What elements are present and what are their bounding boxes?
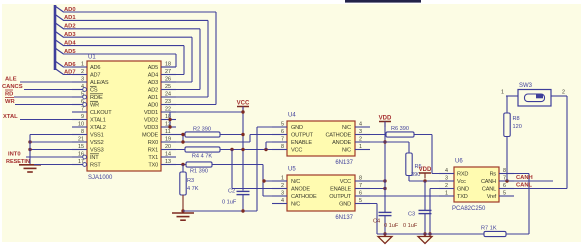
svg-text:4: 4 [359, 121, 362, 127]
wire U4 GND drop [256, 127, 258, 211]
wire AD0 to U1 pin [161, 104, 216, 106]
U4 right pin 1 N/C [355, 149, 370, 151]
svg-text:8: 8 [281, 144, 284, 150]
svg-text:CATHODE: CATHODE [291, 194, 317, 200]
svg-text:VDD2: VDD2 [144, 118, 158, 124]
wire VSS1 to ground [30, 134, 87, 136]
wire R4 right to U4 VCC [220, 149, 287, 151]
U1 left pin 3 ALE/AS [72, 81, 87, 83]
switch SW3 body [518, 90, 551, 107]
svg-text:1: 1 [501, 90, 504, 96]
svg-text:VDD1: VDD1 [144, 110, 158, 116]
svg-text:MODE: MODE [142, 133, 158, 139]
wire AD2 bus entry [55, 23, 64, 29]
U1 right pin 26 AD3 [161, 81, 176, 83]
wire AD5 to U1 pin [161, 66, 176, 68]
svg-text:AD0: AD0 [148, 103, 158, 109]
svg-text:RX0: RX0 [148, 140, 158, 146]
svg-text:CATHODE: CATHODE [325, 133, 351, 139]
wire CANL [499, 188, 567, 190]
wire U5 ANODE branch [231, 150, 233, 189]
wire AD1 vertical drop [207, 20, 209, 97]
junction VSS2 [28, 140, 31, 143]
U5 right pin 6 OUTPUT [355, 195, 370, 197]
wire U6 GND down [430, 188, 454, 190]
junction U4 enable tie [264, 148, 267, 151]
svg-text:C4: C4 [373, 219, 380, 225]
junction C3 ground [423, 232, 426, 235]
svg-text:CANH: CANH [516, 175, 533, 181]
svg-text:AD0: AD0 [64, 7, 76, 13]
U1 left pin 2 AD7 [72, 74, 87, 76]
U5 right pin 5 GND [355, 203, 370, 205]
svg-text:RXD: RXD [457, 172, 468, 178]
junction R2/VCC riser [241, 133, 244, 136]
svg-text:INT: INT [90, 155, 99, 161]
U1 left pin 16 INT [72, 156, 83, 158]
wire R2 right to VCC [220, 134, 243, 136]
resistor R6 390 [386, 132, 414, 137]
U1 left pin 8 VSS1 [72, 134, 87, 136]
resistor R7 1K [484, 231, 506, 236]
U1 right pin 23 AD0 [161, 104, 176, 106]
svg-text:VCC: VCC [291, 148, 302, 154]
junction VCC riser / VDD1 [241, 110, 244, 113]
svg-text:R7 1K: R7 1K [481, 226, 497, 232]
svg-text:AD1: AD1 [148, 95, 158, 101]
junction U5 pin1 area [262, 179, 265, 182]
U6 right pin 6 CANL [499, 188, 514, 190]
U6 right pin 8 Rs [499, 173, 514, 175]
SW3 pin 1 [506, 95, 518, 97]
wire AD3 bus entry [55, 31, 64, 37]
svg-text:GND: GND [291, 125, 303, 131]
wire INT0 [26, 156, 83, 158]
wire RX0 jog up [249, 135, 251, 143]
junction VDD2 [168, 118, 171, 121]
U1 right pin 13 TX0 [161, 164, 176, 166]
resistor R3 4.7K [180, 172, 186, 195]
U5 left pin 4 N/C [272, 203, 287, 205]
svg-text:5: 5 [503, 190, 506, 196]
wire AD6 bus entry [55, 61, 64, 67]
svg-text:AD6: AD6 [64, 62, 76, 68]
U6 right pin 7 CANH [499, 180, 514, 182]
wire R1 right [212, 164, 263, 166]
U1 right pin 18 AD5 [161, 66, 176, 68]
U4 right pin 4 N/C [355, 126, 370, 128]
wire to U4 OUTPUT [250, 134, 287, 136]
wire WR [15, 104, 83, 106]
U5 left pin 3 CATHODE [272, 195, 287, 197]
junction C2 ground [241, 209, 244, 212]
svg-text:U4: U4 [288, 113, 296, 119]
wire VDD1 to VCC [161, 111, 243, 113]
junction U5 VCC/VDD [383, 179, 386, 182]
U6 left pin 1 TXD [439, 195, 454, 197]
wire C3 riser [424, 181, 426, 210]
svg-text:N/C: N/C [291, 179, 300, 185]
svg-text:OUTPUT: OUTPUT [329, 194, 352, 200]
ground (VSS) [19, 165, 41, 172]
svg-text:C2: C2 [228, 189, 235, 195]
svg-text:SJA1000: SJA1000 [88, 175, 113, 181]
svg-text:R8: R8 [513, 116, 520, 122]
wire VCC riser [242, 107, 244, 191]
wire R2 left jog down [182, 135, 184, 143]
U1 left pin 21 VSS2 [72, 141, 87, 143]
svg-text:VSS3: VSS3 [90, 148, 104, 154]
svg-text:TX0: TX0 [148, 163, 158, 169]
svg-text:CANL: CANL [482, 187, 496, 193]
U4 right pin 2 ANODE [355, 141, 370, 143]
svg-text:4 7K: 4 7K [187, 186, 199, 192]
resistor R4 4.7K [185, 147, 220, 152]
capacitor C3 0.1uF [419, 209, 432, 211]
wire CANCS [24, 89, 83, 91]
wire U5 pin1 stub extension [264, 180, 287, 182]
svg-text:7: 7 [81, 106, 84, 112]
wire VDD tie vertical [169, 112, 171, 127]
wire AD4 to U1 pin [161, 74, 184, 76]
ground (C4) [378, 237, 392, 244]
svg-text:GND: GND [339, 202, 351, 208]
U1 right pin 20 RX1 [161, 149, 176, 151]
cropped title underline at top [345, 0, 421, 3]
U6 left pin 2 GND [439, 188, 454, 190]
wire AD7 bus entry [55, 69, 64, 75]
wire R8 bottom to CANH [506, 137, 508, 182]
junction U5 anode branch [230, 148, 233, 151]
svg-text:1: 1 [445, 190, 448, 196]
power VDD symbol (U6) [419, 172, 431, 174]
svg-text:VDD3: VDD3 [144, 125, 158, 131]
svg-text:3: 3 [445, 175, 448, 181]
wire ground feeder [29, 135, 31, 165]
wire R8 top [506, 96, 508, 113]
U4 left pin 6 OUTPUT [272, 134, 287, 136]
svg-text:U5: U5 [288, 167, 296, 173]
svg-text:11: 11 [165, 129, 171, 135]
svg-text:RD: RD [5, 92, 13, 98]
ground (R3/C2) [172, 213, 194, 220]
svg-text:0 1uF: 0 1uF [384, 223, 399, 229]
SW3 pin 2 [551, 95, 567, 97]
wire U5 OUTPUT to U6 TXD [355, 195, 454, 197]
wire CANH [499, 180, 553, 182]
wire AD0 bus entry [55, 6, 64, 12]
bus AD[0..7] vertical [54, 5, 57, 70]
wire U4 CATHODE [355, 134, 387, 136]
svg-text:GND: GND [457, 187, 469, 193]
wire R3 top [182, 165, 184, 173]
svg-text:AD5: AD5 [64, 49, 76, 55]
wire R5 bottom [408, 176, 410, 182]
U1 right pin 27 AD4 [161, 74, 176, 76]
U1 left pin 5 RD/E [72, 96, 83, 98]
junction R2 left [181, 133, 184, 136]
svg-text:120: 120 [513, 124, 522, 130]
junction U6 GND/ground row [428, 232, 431, 235]
wire AD3 vertical drop [191, 37, 193, 82]
U1 left pin 9 XTAL1 [72, 119, 87, 121]
wire R3 bottom [182, 195, 184, 213]
U1 right pin 24 AD1 [161, 96, 176, 98]
svg-text:RST: RST [90, 163, 101, 169]
svg-text:AD4: AD4 [148, 73, 158, 79]
resistor R2 390 [185, 132, 220, 137]
ground stub C3 [424, 234, 426, 237]
wire down to U5 cathode [262, 165, 264, 197]
junction R8/CANH [505, 179, 508, 182]
wire AD1 to U1 pin [161, 96, 208, 98]
svg-text:XTAL: XTAL [3, 114, 18, 120]
wire MODE/R2 row [176, 134, 185, 136]
svg-text:VSS2: VSS2 [90, 140, 104, 146]
wire U5 ENABLE to VDD [355, 188, 385, 190]
wire U4 ANODE [355, 141, 409, 143]
junction R3 ground [181, 209, 184, 212]
wire R6 right [414, 134, 432, 136]
junction U5 ENABLE/VDD [383, 187, 386, 190]
wire C4 bottom [384, 216, 386, 234]
svg-text:CLKOUT: CLKOUT [90, 110, 112, 116]
svg-text:XTAL2: XTAL2 [90, 125, 106, 131]
wire R7 right / Rs riser [506, 233, 529, 235]
ground stub C4 [384, 234, 386, 237]
svg-text:2: 2 [562, 90, 565, 96]
U1 right pin 22 VDD1 [161, 111, 176, 113]
svg-text:R3: R3 [187, 178, 194, 184]
svg-text:R2 390: R2 390 [193, 126, 211, 132]
svg-text:AD3: AD3 [64, 32, 76, 38]
U6 left pin 3 Vcc [439, 180, 454, 182]
svg-text:1: 1 [359, 144, 362, 150]
junction VDD3 [168, 125, 171, 128]
U1 right pin 18 VDD2 [161, 119, 176, 121]
power VCC symbol [237, 106, 249, 108]
svg-text:RX1: RX1 [148, 148, 158, 154]
U5 right pin 7 ENABLE [355, 188, 370, 190]
svg-text:0 1uF: 0 1uF [222, 200, 237, 206]
wire ALE [20, 81, 87, 83]
svg-text:WR: WR [90, 103, 99, 109]
svg-text:4: 4 [445, 168, 448, 174]
U6 right pin 5 Vref [499, 195, 514, 197]
U1 right pin 12 VDD3 [161, 126, 176, 128]
svg-text:10: 10 [78, 121, 84, 127]
wire SW3 pin2 drop [566, 96, 568, 189]
wire RXD drop [431, 135, 433, 174]
U4 left pin 7 ENABLE [272, 141, 287, 143]
wire VDD riser [384, 122, 386, 213]
wire RX0 [161, 141, 250, 143]
svg-text:TX1: TX1 [148, 155, 158, 161]
wire U4 GND left [257, 126, 287, 128]
svg-text:VDD: VDD [419, 167, 432, 173]
wire middle ground row [183, 210, 257, 212]
wire XTAL1 [20, 119, 87, 121]
junction VCC riser / U4 VCC row [241, 148, 244, 151]
U1 left pin 4 CS [72, 89, 83, 91]
svg-text:3: 3 [281, 190, 284, 196]
resistor R5 390 [406, 153, 412, 176]
resistor R8 120 [504, 113, 510, 137]
wire AD5 vertical drop [175, 54, 177, 67]
svg-text:6N137: 6N137 [335, 215, 353, 221]
svg-text:VDD: VDD [379, 116, 392, 122]
svg-text:ENABLE: ENABLE [330, 187, 351, 193]
svg-text:6: 6 [281, 129, 284, 135]
U1 left pin 7 CLKOUT [72, 111, 87, 113]
U6 left pin 4 RXD [439, 173, 454, 175]
svg-text:PCA82C250: PCA82C250 [452, 206, 486, 212]
svg-text:RESETIN: RESETIN [6, 159, 30, 165]
svg-text:N/C: N/C [291, 202, 300, 208]
svg-text:U1: U1 [88, 55, 96, 61]
U5 right pin 8 VCC [355, 180, 370, 182]
wire RESETIN [34, 164, 83, 166]
svg-text:AD5: AD5 [148, 65, 158, 71]
svg-text:WR: WR [5, 99, 15, 105]
svg-text:CANL: CANL [516, 183, 533, 189]
wire U5 VCC to VDD [355, 180, 385, 182]
junction VDD/U6 Vcc [423, 179, 426, 182]
wire AD1 bus entry [55, 14, 64, 20]
wire C2 bottom [242, 195, 244, 211]
svg-text:ENABLE: ENABLE [291, 140, 312, 146]
U1 left pin 10 XTAL2 [72, 126, 87, 128]
wire AD3 to U1 pin [161, 81, 192, 83]
U1 right pin 14 TX1 [161, 156, 176, 158]
U1 left pin 17 RST [72, 164, 83, 166]
U4 left pin 8 VCC [272, 149, 287, 151]
wire AD2 to U1 pin [161, 89, 200, 91]
svg-text:ANODE: ANODE [291, 187, 310, 193]
U1 left pin 1 AD6 [72, 66, 87, 68]
svg-text:C3: C3 [408, 212, 415, 218]
wire AD2 vertical drop [199, 29, 201, 90]
svg-text:CANH: CANH [481, 179, 496, 185]
svg-text:AD1: AD1 [64, 15, 76, 21]
junction TX0/R1/R3 [181, 163, 184, 166]
op-amp U6 PCA82C250 CAN transceiver body [454, 167, 499, 202]
capacitor C2 0.1uF [237, 190, 250, 192]
wire AD4 vertical drop [183, 46, 185, 75]
wire R5 top [408, 142, 410, 153]
svg-text:AD6: AD6 [90, 65, 100, 71]
svg-text:4: 4 [281, 198, 284, 204]
svg-text:ANODE: ANODE [332, 140, 351, 146]
svg-text:R4 4 7K: R4 4 7K [192, 154, 212, 160]
svg-text:N/C: N/C [342, 148, 351, 154]
junction VSS3 [28, 148, 31, 151]
svg-text:Vref: Vref [487, 194, 497, 200]
svg-text:AD4: AD4 [64, 40, 76, 46]
svg-text:TXD: TXD [457, 194, 468, 200]
U4 left pin 5 GND [272, 126, 287, 128]
U5 left pin 1 N/C [272, 180, 287, 182]
svg-text:SW3: SW3 [519, 83, 533, 89]
svg-text:R1 390: R1 390 [190, 169, 208, 175]
svg-text:AD3: AD3 [148, 80, 158, 86]
svg-text:Rs: Rs [490, 172, 497, 178]
U4 right pin 3 CATHODE [355, 134, 370, 136]
capacitor C4 0.1uF [379, 211, 392, 213]
wire RD [14, 96, 83, 98]
svg-text:ALE/AS: ALE/AS [90, 80, 109, 86]
svg-text:CANCS: CANCS [2, 84, 23, 90]
op-amp U5 6N137 optocoupler body [287, 175, 355, 211]
svg-text:VSS1: VSS1 [90, 133, 104, 139]
svg-text:XTAL1: XTAL1 [90, 118, 106, 124]
wire Rs row [499, 173, 529, 175]
svg-text:CS: CS [90, 88, 98, 94]
svg-text:ALE: ALE [5, 77, 17, 83]
svg-text:Vcc: Vcc [457, 179, 466, 185]
U1 right pin 11 MODE [161, 134, 176, 136]
wire AD5 bus entry [55, 48, 64, 54]
wire U4 ENABLE jog [265, 142, 267, 150]
svg-text:VCC: VCC [340, 179, 351, 185]
wire RX1 [161, 149, 185, 151]
U1 left pin 15 VSS3 [72, 149, 87, 151]
svg-text:N/C: N/C [342, 125, 351, 131]
junction C4 ground [383, 232, 386, 235]
wire C3 bottom [424, 214, 426, 234]
resistor R1 390 [186, 162, 212, 167]
svg-text:AD7: AD7 [64, 69, 76, 75]
U5 left pin 2 ANODE [272, 188, 287, 190]
wire bottom ground row [377, 233, 484, 235]
svg-text:RD/E: RD/E [90, 95, 103, 101]
svg-text:VCC: VCC [237, 101, 250, 107]
wire AD4 bus entry [55, 40, 64, 46]
wire VSS2 to ground [30, 141, 87, 143]
svg-text:6N137: 6N137 [335, 160, 353, 166]
junction RX0/R2 [181, 140, 184, 143]
svg-text:U6: U6 [455, 159, 463, 165]
op-amp U4 6N137 optocoupler body [287, 121, 355, 156]
U1 right pin 19 RX0 [161, 141, 176, 143]
svg-text:R6 390: R6 390 [391, 126, 409, 132]
svg-text:AD2: AD2 [64, 24, 76, 30]
ground (C3) [418, 237, 432, 244]
U1 left pin 6 WR [72, 104, 83, 106]
junction U4 ANODE/VDD [383, 140, 386, 143]
wire AD0 vertical drop [215, 12, 217, 105]
wire TX0 [161, 164, 186, 166]
svg-text:AD2: AD2 [148, 88, 158, 94]
wire U5 GND down [355, 203, 377, 205]
svg-text:0 1uF: 0 1uF [403, 223, 418, 229]
svg-text:14: 14 [165, 151, 171, 157]
svg-text:INT0: INT0 [8, 152, 21, 158]
wire VSS3 to ground [30, 149, 87, 151]
svg-text:AD7: AD7 [90, 73, 100, 79]
U1 right pin 25 AD2 [161, 89, 176, 91]
op-amp U1 SJA1000 CAN controller body [87, 61, 161, 171]
svg-text:OUTPUT: OUTPUT [291, 133, 314, 139]
power VDD symbol [379, 121, 391, 123]
